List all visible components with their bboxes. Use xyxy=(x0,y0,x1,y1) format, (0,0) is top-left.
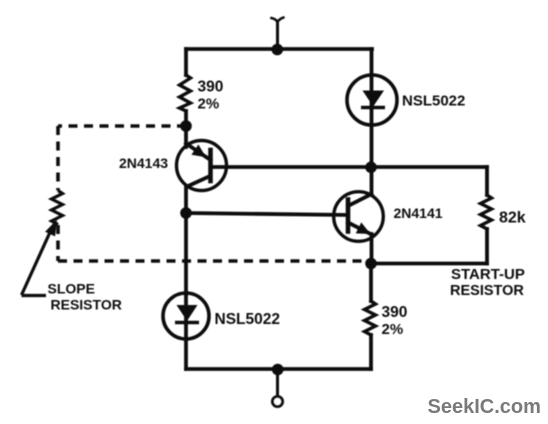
svg-text:NSL5022: NSL5022 xyxy=(215,311,280,328)
svg-text:NSL5022: NSL5022 xyxy=(402,93,465,110)
svg-text:390: 390 xyxy=(382,304,408,321)
svg-text:SeekIC.com: SeekIC.com xyxy=(428,396,541,418)
svg-text:2%: 2% xyxy=(382,321,404,338)
svg-text:SLOPE: SLOPE xyxy=(48,281,95,297)
svg-text:390: 390 xyxy=(198,79,224,96)
svg-text:2N4141: 2N4141 xyxy=(394,205,443,221)
svg-text:START-UP: START-UP xyxy=(451,266,525,283)
svg-text:82k: 82k xyxy=(499,210,526,227)
svg-text:2N4143: 2N4143 xyxy=(119,155,168,171)
svg-text:RESISTOR: RESISTOR xyxy=(51,297,122,313)
svg-text:2%: 2% xyxy=(198,96,220,113)
svg-text:RESISTOR: RESISTOR xyxy=(450,283,524,299)
